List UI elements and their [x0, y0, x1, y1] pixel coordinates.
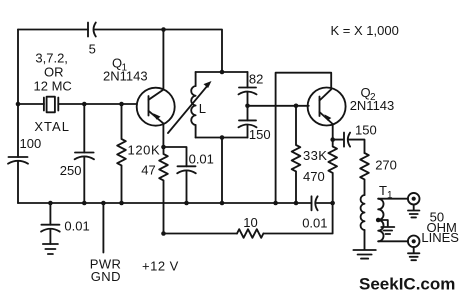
resistor 10 (decoupling in +12V rail): [237, 215, 263, 238]
capacitor 100 (series in left frame): [8, 136, 41, 164]
resistor 470: [303, 140, 337, 203]
wire PWR GND stub: [102, 203, 104, 253]
crystal XTAL: [34, 97, 70, 134]
svg-text:10: 10: [243, 215, 257, 230]
label PWR GND: [90, 257, 122, 285]
svg-text:2N1143: 2N1143: [103, 69, 148, 84]
node collector Q1 to top wire junction: [161, 27, 166, 32]
wire Q2 collector to ground bus: [276, 73, 332, 203]
svg-text:150: 150: [249, 127, 271, 142]
resistor 47: [141, 147, 168, 234]
svg-text:47: 47: [141, 163, 155, 178]
wire tank top: [196, 71, 248, 73]
svg-text:LINES: LINES: [421, 230, 459, 245]
node Q1 emitter junction: [161, 145, 166, 150]
ground T1 primary: [353, 250, 375, 259]
inductor L (variable): [168, 72, 212, 138]
node Q2 emitter junction: [330, 137, 335, 142]
svg-text:150: 150: [355, 123, 377, 138]
capacitor 82: [239, 72, 264, 106]
node 82/150 divider junction: [245, 104, 250, 109]
svg-text:0.01: 0.01: [64, 219, 89, 234]
wire +12V rail: [164, 203, 333, 234]
svg-text:5: 5: [89, 42, 96, 57]
svg-text:0.01: 0.01: [189, 152, 214, 167]
svg-text:100: 100: [20, 136, 42, 151]
capacitor 0.01 (bus to chassis ground): [41, 203, 90, 244]
svg-text:3,7.2,: 3,7.2,: [35, 51, 68, 66]
ground connector J2: [408, 253, 419, 260]
wire top bus from left frame to tank corner: [18, 30, 222, 73]
ground connector J1: [408, 211, 419, 218]
node left frame to crystal wire: [16, 102, 21, 107]
wire ground bus: [18, 202, 333, 204]
svg-text:GND: GND: [91, 269, 121, 284]
wire crystal line (base line of Q1): [18, 103, 137, 105]
node crystal wire to 120K branch: [119, 102, 124, 107]
node tank top junction: [220, 70, 225, 75]
transformer T1 secondary: [378, 199, 408, 242]
node +12V junction: [161, 231, 166, 236]
transistor Q1 2N1143: [103, 30, 175, 148]
capacitor 0.01 (Q1 emitter bypass): [164, 147, 214, 203]
svg-text:270: 270: [375, 158, 397, 173]
wire Q2 base line: [248, 105, 309, 107]
transformer T1 primary: [361, 183, 393, 250]
wire left frame: [17, 30, 19, 204]
wire tank bottom: [196, 138, 248, 204]
connector J2 (bottom 50 ohm line): [408, 236, 420, 253]
resistor 33K: [292, 106, 328, 203]
resistor 270: [360, 153, 397, 195]
svg-text:L: L: [199, 101, 206, 116]
svg-text:T: T: [379, 183, 387, 198]
svg-text:12 MC: 12 MC: [34, 79, 72, 94]
node tank bottom junction: [220, 135, 225, 140]
capacitor 0.01 (series bypass at bus right end): [302, 196, 327, 230]
wire center tap to ground: [378, 220, 388, 227]
svg-text:120K: 120K: [128, 143, 161, 158]
label 50 OHM-LINES: [421, 210, 460, 246]
node bus junctions: [48, 201, 335, 206]
svg-text:2N1143: 2N1143: [350, 98, 395, 113]
ground chassis (bottom left): [43, 244, 58, 254]
capacitor 250: [60, 104, 94, 203]
resistor 120K: [117, 104, 160, 203]
capacitor 150 (tank): [239, 106, 271, 142]
svg-text:82: 82: [249, 72, 263, 87]
svg-text:33K: 33K: [303, 148, 327, 163]
node base line to 33K: [294, 104, 299, 109]
svg-text:SeekIC.com: SeekIC.com: [359, 275, 455, 294]
ground center tap: [381, 227, 394, 234]
transistor Q2 2N1143: [308, 85, 395, 140]
svg-text:0.01: 0.01: [302, 216, 327, 231]
svg-text:K = X 1,000: K = X 1,000: [331, 23, 399, 38]
node crystal wire to 250 branch: [82, 102, 87, 107]
capacitor 5 (series in top wire): [88, 23, 96, 57]
label crystal frequencies: [34, 51, 72, 94]
svg-text:470: 470: [303, 169, 325, 184]
node T1 secondary center tap: [376, 218, 381, 223]
svg-text:OR: OR: [44, 65, 64, 80]
capacitor 150 (output coupling): [333, 123, 377, 154]
connector J1 (top 50 ohm line): [408, 193, 420, 210]
svg-text:XTAL: XTAL: [34, 119, 70, 134]
svg-text:+12 V: +12 V: [142, 259, 179, 274]
svg-text:250: 250: [60, 163, 82, 178]
